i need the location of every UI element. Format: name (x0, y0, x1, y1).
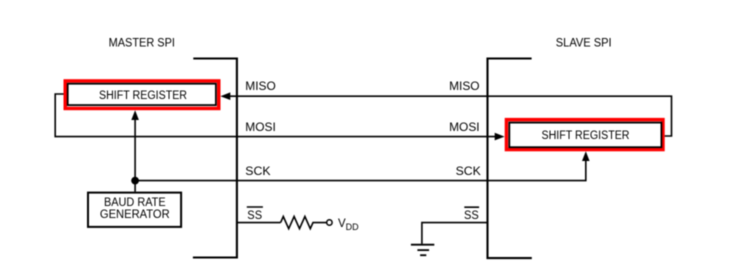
svg-text:BAUD RATE: BAUD RATE (104, 197, 166, 209)
shift register box (slave) red highlight (506, 120, 663, 150)
svg-text:GENERATOR: GENERATOR (100, 209, 170, 221)
wire SS slave to ground (422, 223, 488, 244)
arrowhead MISO into master shift register (220, 92, 230, 100)
overline SS (master) (247, 206, 263, 208)
ground symbol (411, 245, 434, 256)
svg-text:MASTER SPI: MASTER SPI (109, 38, 175, 50)
svg-text:MOSI: MOSI (245, 122, 275, 134)
wire SS master to pull-up resistor (237, 222, 281, 224)
wire MISO (master shift register to slave shift register, right loop) (230, 96, 672, 136)
shift register box (master) inner black box (68, 84, 216, 105)
svg-text:MISO: MISO (245, 81, 276, 93)
overline SS (slave) (464, 206, 479, 208)
Vdd open terminal circle (327, 220, 332, 225)
shift register box (slave) inner black box (509, 123, 661, 148)
shift register box (master) red highlight (65, 81, 219, 109)
svg-text:SS: SS (247, 210, 262, 222)
master chip boundary (193, 59, 237, 258)
wire MOSI (master shift register left loop to slave shift register) (55, 94, 495, 137)
svg-text:MOSI: MOSI (449, 122, 480, 134)
resistor pull-up (281, 217, 327, 229)
slave chip boundary (488, 59, 532, 259)
svg-text:MISO: MISO (449, 81, 480, 93)
wire SCK (junction to slave shift register) (135, 161, 586, 181)
arrowhead clock into master shift register bottom (131, 110, 139, 120)
svg-text:SS: SS (464, 210, 479, 222)
svg-text:SHIFT REGISTER: SHIFT REGISTER (542, 130, 630, 142)
arrowhead SCK into slave shift register bottom (582, 151, 590, 161)
svg-text:SCK: SCK (456, 166, 482, 178)
wire baud rate generator to master shift register (134, 120, 136, 192)
svg-text:SHIFT REGISTER: SHIFT REGISTER (99, 90, 187, 102)
junction dot SCK node (131, 177, 139, 185)
svg-text:SLAVE SPI: SLAVE SPI (556, 38, 612, 50)
svg-text:SCK: SCK (245, 166, 271, 178)
arrowhead MOSI into slave shift register (495, 133, 505, 141)
baud rate generator box (88, 193, 181, 227)
